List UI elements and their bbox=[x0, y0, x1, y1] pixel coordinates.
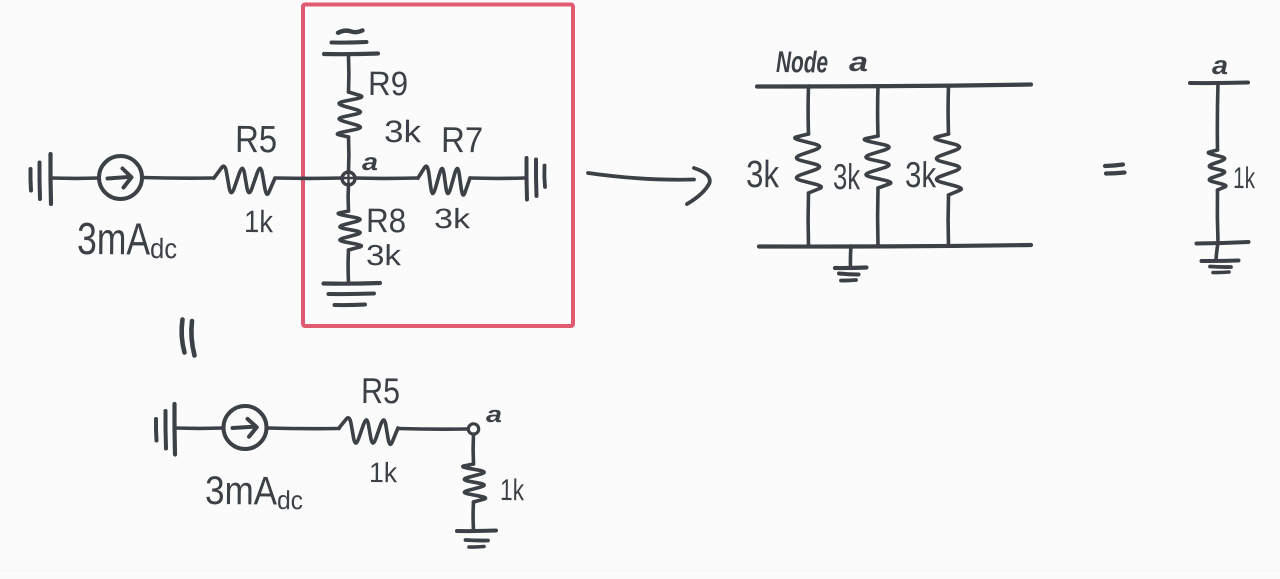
svg-text:R9: R9 bbox=[368, 65, 408, 103]
wire: rail down to 3k #2 bbox=[876, 86, 880, 136]
svg-text:3k: 3k bbox=[384, 114, 422, 149]
svg-text:1k: 1k bbox=[1233, 162, 1256, 195]
svg-text:R7: R7 bbox=[441, 119, 483, 160]
wire: R5 to node a (top) bbox=[276, 176, 343, 180]
wire: R9 to top ground bbox=[347, 56, 351, 92]
ground GND1 left of current source (sideways, top circuit) bbox=[28, 169, 33, 191]
svg-text:a: a bbox=[362, 149, 378, 176]
svg-text:3k: 3k bbox=[746, 154, 780, 196]
resistor 1k (bottom circuit) bbox=[463, 464, 486, 502]
svg-text:1k: 1k bbox=[369, 457, 398, 488]
resistor 1k (right circuit) bbox=[1208, 150, 1226, 190]
wire: current source to R5 (top) bbox=[142, 176, 213, 180]
wire: node a down to 1k resistor (bottom) bbox=[471, 434, 475, 464]
wire: 3k #2 to bottom rail bbox=[876, 188, 880, 246]
current source I1 (circle with right arrow, top circuit) bbox=[99, 156, 142, 199]
resistor 3k #3 bbox=[935, 134, 961, 195]
wire: bottom rail bbox=[759, 245, 1031, 247]
svg-text:R5: R5 bbox=[361, 370, 400, 411]
wire: node a up to R9 bbox=[347, 137, 351, 172]
wire: R5 to node a (bottom) bbox=[398, 427, 467, 431]
svg-text:R5: R5 bbox=[235, 119, 277, 161]
wire: rail down to 3k #3 bbox=[946, 86, 950, 134]
highlight box (red rectangle) bbox=[303, 5, 573, 327]
ground (bottom circuit) bbox=[457, 529, 496, 534]
wire: left ground to current source (top circuit) bbox=[52, 176, 99, 180]
svg-text:a: a bbox=[849, 47, 868, 77]
svg-text:3k: 3k bbox=[905, 154, 937, 195]
parallel symbol || bbox=[182, 320, 185, 353]
wire: 3k #1 to bottom rail bbox=[806, 193, 810, 246]
svg-text:dc: dc bbox=[150, 233, 177, 264]
resistor R5 (top circuit) bbox=[214, 166, 275, 194]
ground (right circuit) bbox=[1216, 243, 1218, 260]
canvas boundary line bbox=[0, 570, 1280, 572]
ground below bottom rail (parallel network) bbox=[849, 246, 853, 267]
svg-text:a: a bbox=[1212, 50, 1228, 80]
wire: current source to R5 (bottom) bbox=[267, 426, 339, 430]
wire: R8 to bottom ground bbox=[346, 250, 350, 282]
wire: top bar down to 1k resistor bbox=[1216, 83, 1220, 150]
svg-text:Node: Node bbox=[776, 46, 828, 79]
svg-text:dc: dc bbox=[277, 485, 303, 515]
svg-text:3mA: 3mA bbox=[205, 469, 278, 514]
equals sign bbox=[1105, 165, 1123, 167]
wire: 1k resistor to bottom bar bbox=[1216, 190, 1220, 242]
resistor R5 (bottom circuit) bbox=[339, 418, 398, 444]
resistor R9 bbox=[337, 92, 361, 137]
svg-text:1k: 1k bbox=[500, 474, 525, 507]
wire: rail down to 3k #1 bbox=[806, 86, 810, 134]
svg-text:3k: 3k bbox=[833, 156, 861, 197]
resistor 3k #2 bbox=[864, 136, 890, 188]
svg-text:1k: 1k bbox=[244, 204, 274, 239]
wire: 3k #3 to bottom rail bbox=[946, 195, 950, 246]
svg-text:a: a bbox=[486, 401, 502, 427]
wire: 1k resistor to ground (bottom) bbox=[471, 502, 475, 530]
svg-text:3k: 3k bbox=[434, 203, 471, 234]
wire: node a down to R8 bbox=[346, 184, 350, 211]
ground above R9 bbox=[324, 51, 378, 56]
svg-text:3mA: 3mA bbox=[77, 213, 150, 265]
wire: bottom bar (right circuit) bbox=[1197, 242, 1249, 244]
resistor R8 bbox=[338, 211, 361, 250]
ground GND left (bottom circuit) bbox=[154, 419, 159, 441]
arrow pointing to parallel network bbox=[588, 173, 694, 180]
wire: ground to current source (bottom circuit) bbox=[175, 426, 223, 430]
ground below R8 bbox=[324, 281, 381, 286]
resistor R7 bbox=[418, 166, 470, 195]
resistor 3k #1 bbox=[795, 134, 821, 193]
wire: top bar of right circuit bbox=[1190, 81, 1248, 86]
svg-text:R8: R8 bbox=[366, 202, 406, 240]
ground right of R7 (sideways) bbox=[524, 158, 529, 200]
node a (small circle, bottom circuit) bbox=[468, 424, 478, 434]
node a (crossed circle, top circuit) bbox=[342, 172, 355, 185]
svg-text:3k: 3k bbox=[366, 240, 402, 272]
wire: R7 to right ground bbox=[470, 176, 524, 180]
current source I1 (bottom circuit) bbox=[224, 406, 267, 449]
wire: top rail (node a) bbox=[757, 85, 1031, 87]
wire: node a to R7 bbox=[355, 176, 419, 180]
